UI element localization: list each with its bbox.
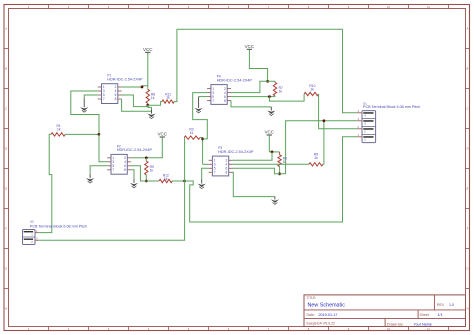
svg-text:D: D [5, 147, 7, 151]
wire junction to R7 [268, 81, 275, 82]
resistor R1 1k [51, 124, 65, 136]
junction R8 bottom [146, 104, 149, 107]
wire junction to P4 pin4 [231, 81, 268, 92]
svg-text:U2: U2 [30, 219, 34, 223]
svg-text:1k: 1k [279, 90, 283, 94]
junction R5 riser [323, 119, 326, 122]
wire P1 pin8 to ground [122, 99, 152, 111]
resistor R10 1k [304, 84, 319, 96]
svg-text:G: G [5, 267, 7, 271]
wire R11 to top bus [174, 29, 357, 113]
junction R1/P1.3/P2.3 [98, 133, 101, 136]
svg-text:New Schematic: New Schematic [308, 303, 346, 309]
ground (P2 right) [130, 179, 138, 188]
svg-text:PCB Terminal Block 5.08 mm Pit: PCB Terminal Block 5.08 mm Pitch [363, 105, 420, 109]
wire P3 pin8 to ground [233, 172, 275, 196]
wire P4 pin3 loop to R3 [193, 93, 208, 139]
wire P2 pin6 to junction [131, 166, 146, 181]
svg-text:B: B [5, 67, 7, 71]
wire junction to R12 [146, 180, 159, 182]
wire VCC junction to R6 [269, 151, 279, 153]
wire jog pin2-VCC [142, 86, 148, 87]
junction R12/R3/buses [183, 180, 186, 183]
svg-text:VCC: VCC [143, 47, 153, 52]
wire R7 bottom to P4 pin6 [231, 95, 275, 98]
connector P2 HDR-IDC-2.54-2X4P [107, 144, 152, 174]
svg-text:HDR-IDC-2.54-2X4P: HDR-IDC-2.54-2X4P [218, 150, 254, 154]
svg-text:H: H [5, 307, 7, 311]
svg-text:B: B [467, 67, 469, 71]
wire P4 pin8 to ground [231, 101, 271, 107]
svg-text:1k: 1k [151, 96, 155, 100]
svg-text:PCB Terminal Block 5.08 mm Pit: PCB Terminal Block 5.08 mm Pitch [30, 225, 87, 229]
wire bottom bus to U1 pin1 [185, 137, 357, 222]
wire P1 pin3 loop [71, 91, 99, 134]
wire R6 junction to U1 pin3 [280, 121, 357, 174]
wire R3 right [200, 138, 203, 165]
power VCC (P2) [158, 132, 168, 139]
resistor R7 1k [273, 82, 283, 95]
wire P1 pin2 [122, 86, 142, 88]
wire P4 pin5 to ground [199, 96, 208, 98]
svg-text:1/1: 1/1 [438, 313, 443, 317]
junction R3 right [201, 138, 204, 141]
ground (P4 right) [267, 107, 275, 116]
wire R8 bottom [147, 103, 149, 105]
svg-text:VCC: VCC [158, 132, 168, 137]
wire R9 bottom [145, 175, 147, 181]
svg-text:A: A [467, 27, 469, 31]
wire junction to P2 pin3 [99, 134, 107, 161]
resistor R12 1k [159, 174, 172, 183]
svg-text:HDR-IDC-2.54-2X4P: HDR-IDC-2.54-2X4P [217, 78, 253, 82]
wire junction to R10 [269, 94, 304, 101]
wire P1 pin6 to junction [122, 95, 148, 107]
junction R9 bottom [145, 180, 148, 183]
wire R1 left to U2 pin1 [39, 134, 52, 232]
resistor R9 1k [145, 161, 154, 175]
svg-text:REV: REV [437, 303, 445, 307]
wire junction to R11 [148, 102, 162, 106]
wire VCC to P1 junction [147, 52, 149, 89]
title block [304, 295, 466, 327]
connector P3 HDR-IDC-2.54-2X4P [209, 146, 254, 176]
terminal block U1 PCB Terminal Block 5.08 mm Pitch [357, 101, 420, 142]
ground (P1 right) [147, 109, 155, 118]
wire VCC to P2 junction [146, 137, 162, 158]
svg-text:1k: 1k [166, 96, 170, 100]
svg-text:7: 7 [103, 97, 105, 101]
wire VCC to P4 junction [249, 49, 267, 81]
wire P3 pin2 jog [233, 152, 273, 160]
svg-text:Your Name: Your Name [414, 323, 432, 327]
svg-text:8: 8 [124, 168, 126, 172]
svg-text:G: G [466, 267, 468, 271]
svg-text:1.0: 1.0 [449, 303, 454, 307]
terminal block U2 PCB Terminal Block 5.08 mm Pitch [23, 219, 88, 244]
svg-text:1k: 1k [150, 169, 154, 173]
ground (P4 left) [194, 97, 202, 113]
wire R3 to P3 pin3 [203, 163, 209, 165]
connector P4 HDR-IDC-2.54-2X4P [207, 75, 252, 105]
svg-text:C: C [467, 107, 469, 111]
svg-text:8: 8 [115, 97, 117, 101]
svg-text:2019-01-17: 2019-01-17 [319, 313, 338, 317]
svg-text:8: 8 [226, 171, 228, 175]
svg-text:7: 7 [112, 168, 114, 172]
resistor R8 1k [146, 89, 155, 103]
power VCC (P1) [143, 47, 153, 54]
svg-text:D: D [467, 147, 469, 151]
svg-text:C: C [5, 107, 7, 111]
ground (P1 left) [80, 98, 88, 112]
resistor R3 1k [184, 128, 200, 140]
junction P1 pin2/VCC [141, 86, 144, 89]
svg-text:Sheet:: Sheet: [420, 313, 430, 317]
ground (P3 right) [271, 197, 279, 205]
junction R6 bottom [278, 172, 281, 175]
wire P3 pin4 to R5 [233, 163, 309, 165]
wire R9 top [145, 158, 147, 161]
wire P3 pin5 to ground [202, 168, 209, 179]
junction P2 pin2/VCC [145, 156, 148, 159]
svg-text:E: E [5, 187, 7, 191]
svg-text:HDR-IDC-2.54-2X4P: HDR-IDC-2.54-2X4P [117, 148, 153, 152]
svg-text:8: 8 [224, 99, 226, 103]
svg-text:H: H [467, 307, 469, 311]
svg-text:1k: 1k [190, 131, 194, 135]
power VCC (P3) [265, 130, 275, 137]
wire R6 bottom [279, 167, 281, 174]
svg-text:Date:: Date: [307, 313, 315, 317]
wire R12 right [172, 180, 184, 182]
svg-text:7: 7 [212, 99, 214, 103]
wire P2 pin2 [131, 157, 146, 159]
wire VCC to P3 junction [268, 135, 270, 152]
resistor R5 1k [309, 153, 323, 167]
svg-text:7: 7 [214, 171, 216, 175]
svg-text:A: A [5, 27, 7, 31]
wire R3 left leg [184, 138, 186, 181]
svg-text:VCC: VCC [245, 44, 255, 49]
ground (P2 left) [86, 174, 94, 183]
junction P4 VCC [266, 80, 269, 83]
svg-text:1k: 1k [310, 87, 314, 91]
wire R10 to U1 pin2 [319, 94, 357, 129]
wire junction to ground (P1) [148, 105, 152, 109]
svg-text:1k: 1k [164, 177, 168, 181]
svg-text:TITLE:: TITLE: [307, 296, 317, 300]
svg-text:1k: 1k [57, 127, 61, 131]
wire R1 right [65, 133, 99, 135]
svg-text:HDR-IDC-2.54-2X4P: HDR-IDC-2.54-2X4P [107, 78, 143, 82]
resistor R6 1k [278, 152, 287, 167]
svg-text:VCC: VCC [265, 130, 275, 135]
svg-text:Drawn By:: Drawn By: [387, 323, 404, 327]
wire P1 pin5 to ground [84, 95, 98, 98]
junction P3 VCC [271, 151, 274, 154]
svg-text:E: E [467, 187, 469, 191]
resistor R11 1k [162, 92, 174, 103]
power VCC (P4) [245, 44, 255, 51]
wire U2 pin2 bus [39, 181, 185, 240]
junction R7 bottom [268, 95, 271, 98]
wire R5 to U1 pin3 net [323, 121, 324, 165]
wire P2 pin8 to ground [131, 170, 134, 179]
wire P3 pin6 jog [233, 168, 280, 174]
wire P2 pin5 to ground [90, 166, 107, 174]
connector P1 HDR-IDC-2.54-2X4P [98, 74, 143, 104]
svg-text:EasyEDA V5.9.22: EasyEDA V5.9.22 [307, 322, 336, 326]
ground (P3 left) [198, 179, 206, 188]
svg-text:1k: 1k [314, 156, 318, 160]
